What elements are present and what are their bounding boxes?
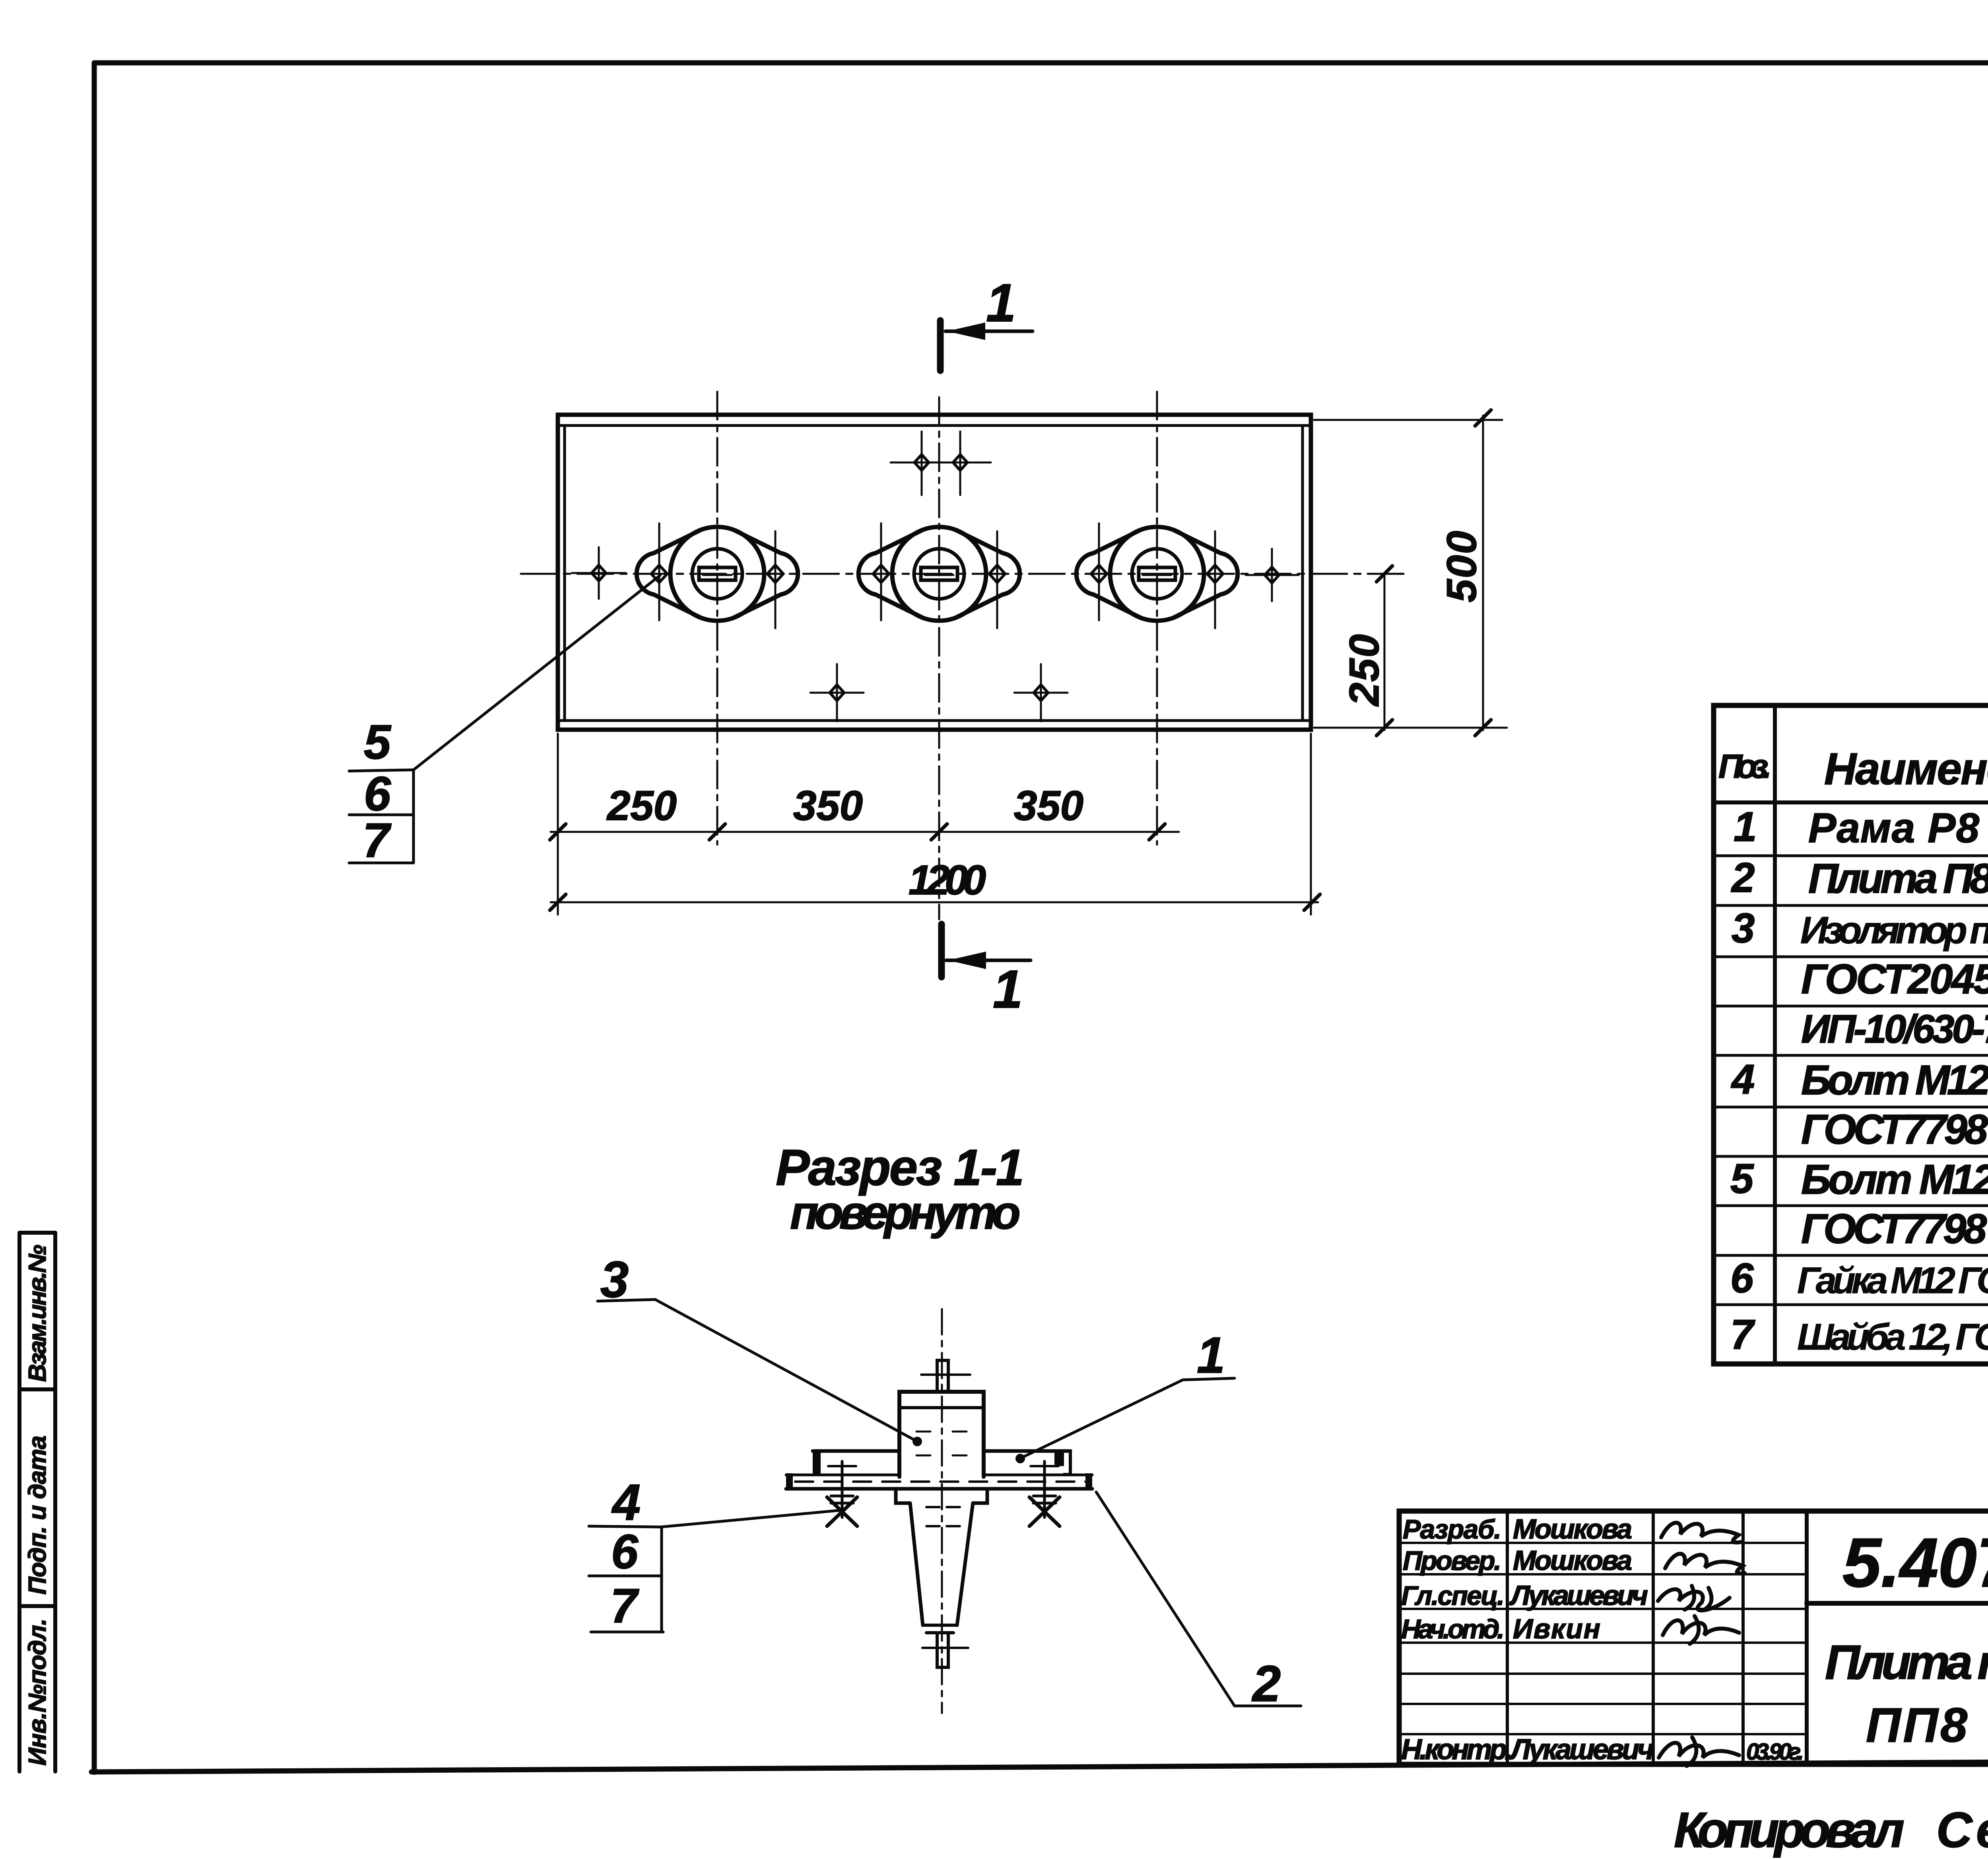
svg-text:Гайка М12 ГОСТ5915-70*: Гайка М12 ГОСТ5915-70* — [1797, 1259, 1988, 1301]
svg-text:4: 4 — [611, 1474, 641, 1531]
label 2 leader — [1096, 1492, 1235, 1706]
svg-text:1: 1 — [993, 959, 1023, 1019]
svg-text:Поз.: Поз. — [1718, 748, 1772, 785]
left margin box: divider 1 — [19, 1387, 55, 1391]
cut mark bottom bar — [938, 924, 945, 977]
stamp vertical: labels|names — [1506, 1511, 1509, 1764]
label 3 leader — [655, 1300, 917, 1441]
svg-text:1: 1 — [986, 273, 1016, 333]
dim tick i — [1376, 566, 1392, 582]
dimension line 250 right — [1384, 574, 1386, 730]
svg-text:Копировал: Копировал — [1674, 1803, 1905, 1858]
svg-text:Шайба 12, ГОСТ11371-78*: Шайба 12, ГОСТ11371-78* — [1797, 1316, 1988, 1358]
bottom pin tick — [922, 1647, 968, 1649]
stamp outer border — [1399, 1511, 1988, 1764]
dimension line 1200 — [551, 901, 1318, 903]
stamp vertical: dates|docfield — [1805, 1511, 1809, 1764]
dim tick h — [1475, 720, 1491, 736]
svg-text:2: 2 — [1252, 1655, 1281, 1712]
svg-text:Изолятор проходной: Изолятор проходной — [1800, 909, 1988, 952]
frame channel left end bar — [813, 1451, 821, 1475]
dim tick d — [1149, 824, 1165, 840]
dim tick e — [550, 894, 566, 910]
TOPVIEW — [349, 273, 1507, 1019]
svg-text:Гл.спец.: Гл.спец. — [1401, 1581, 1505, 1611]
axis vertical 1 — [716, 392, 718, 845]
frame bottom line — [91, 1759, 1988, 1772]
label 7 underline — [591, 1631, 663, 1634]
cut mark bottom arrowhead — [948, 952, 986, 969]
svg-text:Нач.отд.: Нач.отд. — [1401, 1614, 1505, 1644]
plate top line — [786, 1474, 898, 1476]
label 4 leader — [661, 1510, 841, 1527]
plate inner edge bottom — [558, 719, 1311, 722]
cone right side — [957, 1503, 973, 1625]
dim tick f — [1304, 894, 1320, 910]
svg-text:Н.контр.: Н.контр. — [1401, 1734, 1512, 1766]
plate bottom line — [786, 1487, 1092, 1491]
hidden dashes under plate — [926, 1507, 960, 1526]
svg-text:3: 3 — [1732, 905, 1755, 952]
svg-text:350: 350 — [1014, 783, 1083, 829]
svg-text:повернуто: повернуто — [790, 1187, 1021, 1239]
svg-text:Сергеева: Сергеева — [1936, 1803, 1988, 1858]
pos label line under 6 — [349, 814, 414, 816]
hole diamond lower A — [830, 685, 844, 701]
table row lines — [1714, 856, 1988, 1305]
frame channel right — [984, 1449, 1070, 1453]
svg-text:7: 7 — [610, 1579, 639, 1633]
table column line Poz — [1773, 705, 1777, 1364]
bolt right: X mark — [1029, 1497, 1060, 1526]
svg-text:Инв.№подл.: Инв.№подл. — [24, 1618, 51, 1766]
svg-text:Взам.инв.№: Взам.инв.№ — [24, 1245, 51, 1382]
svg-text:Подп. и дата: Подп. и дата — [24, 1436, 51, 1595]
svg-text:Рама Р8: Рама Р8 — [1808, 805, 1980, 851]
section axis — [941, 1309, 943, 1713]
svg-text:6: 6 — [364, 767, 391, 821]
plate left end bar — [786, 1473, 793, 1490]
bolt left: head tick — [828, 1465, 856, 1467]
BOTTOMNOTES — [1674, 1764, 1988, 1858]
bolt left: shank — [841, 1461, 844, 1517]
frame channel right end bar — [1054, 1451, 1064, 1466]
plate inner edge right — [1301, 425, 1304, 721]
label stack vertical — [660, 1527, 663, 1632]
dim tick a — [550, 824, 566, 840]
left margin box: top cap — [19, 1231, 55, 1235]
axis vertical 3 — [1156, 392, 1158, 845]
svg-text:ПП8: ПП8 — [1866, 1698, 1967, 1752]
dim tick b — [709, 824, 725, 840]
PARTSTABLE — [1714, 705, 1988, 1364]
svg-text:1: 1 — [1734, 804, 1757, 850]
svg-text:Мошкова: Мошкова — [1513, 1545, 1632, 1576]
svg-text:5: 5 — [1730, 1156, 1754, 1202]
frame channel left — [813, 1449, 899, 1453]
svg-text:1200: 1200 — [909, 857, 986, 903]
svg-text:03.90г.: 03.90г. — [1746, 1739, 1804, 1765]
dim tick g — [1475, 410, 1491, 426]
TITLEBLOCK — [1399, 1511, 1988, 1766]
label 3 leader dot — [912, 1437, 922, 1446]
insulator step left — [896, 1489, 910, 1503]
left margin box: outer vertical — [17, 1233, 21, 1772]
svg-text:5: 5 — [364, 715, 392, 769]
insulator step right — [973, 1489, 987, 1503]
top pin tick — [921, 1373, 970, 1376]
hole diamond left — [592, 565, 606, 581]
label 4 underline — [589, 1526, 661, 1527]
svg-text:ГОСТ7798 -70*: ГОСТ7798 -70* — [1801, 1206, 1988, 1252]
svg-text:Лукашевич: Лукашевич — [1509, 1734, 1654, 1766]
svg-text:Наименование: Наименование — [1824, 744, 1988, 794]
top pin — [937, 1360, 948, 1392]
svg-text:ГОСТ7798 -70*: ГОСТ7798 -70* — [1801, 1106, 1988, 1153]
svg-text:500: 500 — [1439, 531, 1485, 602]
pos label line under 7 — [349, 862, 414, 864]
label 1 leader — [1021, 1380, 1183, 1458]
insulator 2 — [858, 523, 1020, 628]
dimension line 500 — [1482, 416, 1484, 730]
label 3 underline — [598, 1300, 655, 1301]
left margin box: inner vertical — [53, 1233, 57, 1772]
frame channel right lip — [1064, 1451, 1070, 1474]
extension line plate left — [557, 734, 559, 915]
cone left side — [910, 1503, 923, 1625]
table header bottom line — [1714, 800, 1988, 804]
svg-text:Лукашевич: Лукашевич — [1509, 1580, 1648, 1611]
svg-text:4: 4 — [1731, 1056, 1755, 1103]
bolt left: nut ticks — [831, 1495, 853, 1498]
svg-text:ГОСТ20454 -85: ГОСТ20454 -85 — [1801, 956, 1988, 1002]
plate right end bar — [1085, 1473, 1092, 1490]
bottom pin — [937, 1633, 948, 1667]
table outer border — [1714, 705, 1988, 1364]
stamp vertical: names|signs — [1652, 1511, 1655, 1764]
cone bottom cap line 1 — [923, 1624, 957, 1627]
stamp vertical: signs|dates — [1741, 1511, 1745, 1764]
svg-text:Провер.: Провер. — [1403, 1546, 1501, 1576]
plate inner edge left — [563, 425, 566, 721]
signature squiggles — [1658, 1523, 1745, 1766]
hole diamond lower B — [1034, 685, 1048, 701]
insulator 3 — [1076, 523, 1238, 628]
svg-text:6: 6 — [611, 1525, 639, 1579]
label 1 underline — [1183, 1378, 1235, 1380]
cone bottom cap line 2 — [926, 1631, 953, 1634]
extension top right — [1314, 419, 1502, 421]
cylinder cap line — [899, 1406, 984, 1409]
cut mark top bar — [937, 321, 944, 371]
dim tick j — [1376, 720, 1392, 736]
svg-text:Плита проходная: Плита проходная — [1825, 1635, 1988, 1689]
hidden dashes in cylinder — [916, 1432, 967, 1455]
frame top line — [94, 60, 1988, 66]
svg-text:5.407-120.0.15: 5.407-120.0.15 — [1842, 1524, 1988, 1602]
insulator body cylinder — [899, 1392, 984, 1477]
plate outline — [558, 415, 1311, 730]
bolt right: shank — [1043, 1461, 1046, 1517]
label 6 underline — [589, 1575, 661, 1577]
hole right crosslines — [1246, 574, 1299, 576]
svg-text:Болт М12×55: Болт М12×55 — [1801, 1156, 1988, 1203]
upper holes shared crossline — [891, 462, 991, 464]
left margin box: divider 2 — [19, 1604, 55, 1608]
plate hidden dashed line — [795, 1480, 1089, 1483]
bolt right: nut ticks — [1033, 1495, 1056, 1498]
bolt left: X mark — [827, 1497, 857, 1526]
insulator 1 — [637, 523, 798, 628]
svg-text:Ивкин: Ивкин — [1513, 1613, 1600, 1644]
label 1 leader dot — [1015, 1454, 1025, 1463]
svg-text:1: 1 — [1197, 1327, 1225, 1384]
svg-text:ИП-10/630-7,5 УХЛ2: ИП-10/630-7,5 УХЛ2 — [1801, 1007, 1988, 1051]
frame left line — [92, 63, 97, 1772]
cut mark top arrow line — [945, 330, 1033, 333]
svg-text:350: 350 — [793, 783, 863, 829]
pos label line under 5 — [349, 770, 414, 771]
svg-text:6: 6 — [1730, 1255, 1754, 1301]
svg-text:2: 2 — [1731, 855, 1755, 901]
svg-text:Болт М12×40: Болт М12×40 — [1801, 1057, 1988, 1103]
plate inner edge top — [558, 424, 1311, 427]
leader to insulator lug — [414, 575, 660, 770]
hole left crosslines — [572, 572, 626, 574]
svg-text:7: 7 — [1730, 1311, 1755, 1358]
pos label box vertical — [412, 770, 415, 863]
cut mark top arrowhead — [947, 322, 985, 340]
dim tick c — [931, 824, 947, 840]
svg-text:250: 250 — [606, 783, 677, 829]
hole diamond upper A — [914, 455, 929, 470]
extension bottom right — [1314, 727, 1507, 729]
hole diamond upper B — [953, 455, 967, 470]
axis vertical 2 — [938, 397, 940, 919]
axis horizontal — [521, 573, 1404, 575]
svg-text:Разраб.: Разраб. — [1403, 1514, 1501, 1544]
doc number cell divider — [1807, 1601, 1988, 1606]
svg-text:7: 7 — [363, 813, 392, 867]
SECTIONVIEW — [589, 1139, 1301, 1713]
svg-text:Мошкова: Мошкова — [1513, 1513, 1632, 1544]
dimension line 250-350-350 — [551, 831, 1179, 833]
stamp row lines left part — [1399, 1543, 1807, 1734]
label 2 underline — [1235, 1705, 1301, 1707]
hole diamond right — [1265, 567, 1279, 583]
svg-text:Плита П8: Плита П8 — [1808, 855, 1988, 902]
svg-text:250: 250 — [1341, 634, 1388, 707]
extension line plate right — [1310, 734, 1312, 915]
cut mark bottom arrow line — [946, 959, 1031, 962]
bolt right: head tick — [1031, 1465, 1058, 1467]
